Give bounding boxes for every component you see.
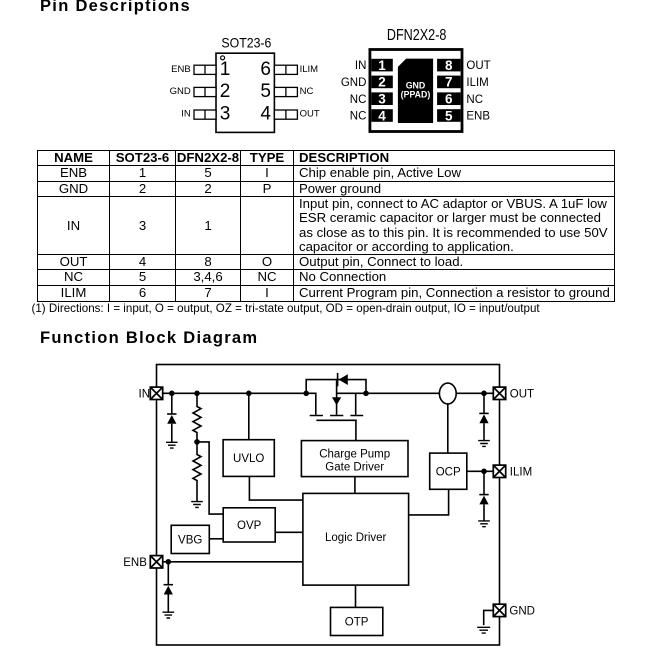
junction node at OUT xyxy=(481,391,487,397)
DFN pin number 2 xyxy=(378,75,386,90)
svg-text:5: 5 xyxy=(445,108,453,123)
pin number 2 xyxy=(220,81,231,102)
junction node at MOSFET drain xyxy=(363,391,369,397)
svg-text:3: 3 xyxy=(220,104,231,125)
DFN pad pin 4 xyxy=(371,109,393,122)
svg-text:8: 8 xyxy=(445,58,453,73)
text UVLO xyxy=(233,453,264,465)
pin label GND xyxy=(170,86,191,97)
label ILIM xyxy=(510,466,532,478)
pin OUT xyxy=(493,387,505,399)
wire: OVP to logic driver xyxy=(275,531,303,533)
svg-text:Charge Pump: Charge Pump xyxy=(319,449,390,461)
wire: IN rail to MOSFET source xyxy=(163,393,316,415)
wire: current sensor to OCP xyxy=(447,404,449,453)
svg-text:OUT: OUT xyxy=(510,388,534,400)
svg-text:OUT: OUT xyxy=(466,60,490,72)
ESD diode D4 (ENB) xyxy=(164,585,173,613)
pin description table xyxy=(37,150,615,302)
svg-text:IN: IN xyxy=(139,388,151,400)
pin ILIM xyxy=(493,465,505,477)
svg-text:NC: NC xyxy=(300,86,314,97)
ground (GND pin) xyxy=(477,627,490,633)
pin 6 lead xyxy=(274,65,297,74)
transistor Q1 bulk line with arrow xyxy=(332,380,341,415)
text OVP xyxy=(237,520,262,532)
current sensor CS1 xyxy=(439,383,456,404)
DFN pin label IN xyxy=(355,60,367,72)
svg-text:ENB: ENB xyxy=(466,111,490,123)
svg-text:6: 6 xyxy=(445,92,453,107)
DFN thermal pad GND (PPAD) xyxy=(398,59,433,123)
ground (ENB ESD) xyxy=(163,612,175,618)
wire: charge pump to logic driver xyxy=(354,477,356,494)
junction node on IN rail at UVLO xyxy=(246,391,252,397)
block charge pump gate driver xyxy=(301,441,408,477)
svg-text:ILIM: ILIM xyxy=(466,77,488,89)
heading: Function Block Diagram xyxy=(40,329,258,348)
DFN pin label ILIM xyxy=(466,77,488,89)
wire: divider tap to OVP xyxy=(197,442,223,514)
DFN pad pin 8 xyxy=(437,59,461,72)
pin GND xyxy=(493,604,505,616)
svg-text:UVLO: UVLO xyxy=(233,453,264,465)
block OTP xyxy=(331,607,383,635)
ESD diode D1 (IN) xyxy=(167,414,176,442)
pin 1 indicator dot xyxy=(221,56,225,60)
svg-text:IN: IN xyxy=(355,60,367,72)
svg-text:ILIM: ILIM xyxy=(510,466,532,478)
svg-text:1: 1 xyxy=(378,58,386,73)
pin label NC xyxy=(300,86,314,97)
pin number 6 xyxy=(260,59,271,80)
pin 3 lead xyxy=(194,110,216,119)
resistor R2 lower xyxy=(193,442,201,502)
junction node at ILIM xyxy=(481,469,487,475)
svg-text:2: 2 xyxy=(378,75,386,90)
pin number 5 xyxy=(260,81,271,102)
junction node at divider tap xyxy=(194,439,200,445)
svg-text:SOT23-6: SOT23-6 xyxy=(221,35,271,51)
svg-text:2: 2 xyxy=(220,81,231,102)
svg-text:ENB: ENB xyxy=(171,64,191,75)
DFN pad pin 1 xyxy=(371,59,393,72)
wire: ILIM ESD diode drop xyxy=(483,471,485,494)
svg-text:OUT: OUT xyxy=(300,109,320,120)
DFN pin number 8 xyxy=(445,58,453,73)
pin label ENB xyxy=(171,64,191,75)
wire: logic driver to OTP xyxy=(355,585,357,607)
svg-text:IN: IN xyxy=(181,109,191,120)
pin label IN xyxy=(181,109,191,120)
DFN pin label NC (pin6) xyxy=(466,94,483,106)
wire: GND pin to ground xyxy=(484,610,494,625)
DFN pin number 3 xyxy=(378,92,386,107)
wire: MOSFET drain rail to OUT xyxy=(337,393,495,415)
wire: UVLO to logic driver xyxy=(249,476,303,500)
svg-text:GND: GND xyxy=(341,77,367,89)
chip boundary xyxy=(157,365,500,646)
svg-text:NC: NC xyxy=(350,94,367,106)
DFN pin number 6 xyxy=(445,92,453,107)
svg-text:4: 4 xyxy=(378,108,386,123)
label GND xyxy=(509,606,535,618)
text Logic Driver xyxy=(325,532,387,544)
table footnote xyxy=(32,302,540,315)
svg-text:1: 1 xyxy=(220,59,231,80)
ESD diode D2 (OUT) xyxy=(479,413,488,440)
DFN pin label ENB xyxy=(466,111,490,123)
block logic driver xyxy=(303,493,409,585)
pin ENB xyxy=(150,556,162,568)
junction node at ENB xyxy=(166,559,172,565)
DFN2X2-8 title xyxy=(387,27,447,44)
svg-text:NC: NC xyxy=(350,111,367,123)
pin 1 lead xyxy=(194,65,216,74)
svg-text:(PPAD): (PPAD) xyxy=(401,90,431,100)
ground (OUT ESD) xyxy=(478,441,490,447)
svg-text:ENB: ENB xyxy=(123,557,147,569)
text OCP xyxy=(436,466,461,478)
ground (IN ESD) xyxy=(166,442,178,448)
wire: logic driver to OCP xyxy=(409,489,449,515)
label IN xyxy=(139,388,151,400)
svg-text:Gate Driver: Gate Driver xyxy=(325,462,384,474)
ground (resistor divider) xyxy=(191,502,203,508)
pin label ILIM xyxy=(300,64,319,75)
junction node on IN rail at divider xyxy=(194,391,200,397)
DFN pad pin 2 xyxy=(371,76,393,89)
pin number 3 xyxy=(220,104,231,125)
label ENB xyxy=(123,557,147,569)
DFN body outline xyxy=(369,48,464,133)
wire: rail to UVLO xyxy=(248,393,250,439)
resistor R1 upper xyxy=(193,393,201,442)
pin 2 lead xyxy=(194,87,216,96)
block OVP xyxy=(223,508,275,542)
body diode D5 xyxy=(338,373,348,386)
ground (ILIM ESD) xyxy=(478,521,490,527)
block UVLO xyxy=(223,440,274,477)
text Charge Pump Gate Driver xyxy=(319,449,390,474)
svg-text:Logic Driver: Logic Driver xyxy=(325,532,387,544)
text OTP xyxy=(345,617,369,629)
text VBG xyxy=(178,535,202,547)
SOT23-6 title xyxy=(221,35,271,51)
svg-text:ILIM: ILIM xyxy=(300,64,319,75)
heading: Pin Descriptions xyxy=(40,0,191,16)
DFN pin number 5 xyxy=(445,108,453,123)
wire: ENB ESD diode drop xyxy=(167,562,169,585)
DFN pin label OUT xyxy=(466,60,490,72)
pin 5 lead xyxy=(274,87,297,96)
DFN pad pin 5 xyxy=(437,109,461,122)
pin IN xyxy=(150,387,162,399)
DFN pin number 7 xyxy=(445,75,453,90)
block OCP xyxy=(430,453,467,489)
DFN pad pin 7 xyxy=(437,76,461,89)
svg-text:7: 7 xyxy=(445,75,453,90)
wire: IN ESD diode drop xyxy=(171,393,173,414)
svg-text:GND: GND xyxy=(170,86,191,97)
wire: gate to charge pump xyxy=(355,420,357,440)
pin number 4 xyxy=(260,104,271,125)
svg-text:3: 3 xyxy=(378,92,386,107)
svg-text:6: 6 xyxy=(260,59,271,80)
svg-text:DFN2X2-8: DFN2X2-8 xyxy=(387,27,447,44)
svg-text:GND: GND xyxy=(509,606,535,618)
SOT23-6 body U1 xyxy=(216,53,274,132)
DFN pin number 4 xyxy=(378,108,386,123)
svg-text:VBG: VBG xyxy=(178,535,202,547)
svg-text:NC: NC xyxy=(466,94,483,106)
transistor Q1 source/bulk/drain bars xyxy=(310,415,364,417)
DFN pad pin 6 xyxy=(437,92,461,105)
ESD diode D3 (ILIM) xyxy=(479,495,488,521)
junction node at MOSFET source xyxy=(303,391,309,397)
transistor Q1 gate xyxy=(316,419,356,421)
wire: ENB to logic driver xyxy=(163,561,303,563)
wire: VBG to OVP xyxy=(209,538,223,540)
label OUT xyxy=(510,388,534,400)
svg-text:OTP: OTP xyxy=(345,617,369,629)
DFN pin number 1 xyxy=(378,58,386,73)
DFN pin label NC (pin4) xyxy=(350,111,367,123)
DFN pad pin 3 xyxy=(371,92,393,105)
DFN pin label GND xyxy=(341,77,367,89)
wire: OUT ESD diode drop xyxy=(483,393,485,413)
wire: OCP to ILIM xyxy=(467,470,495,472)
pin label OUT xyxy=(300,109,320,120)
svg-text:OVP: OVP xyxy=(237,520,262,532)
DFN pin label NC (pin3) xyxy=(350,94,367,106)
svg-text:OCP: OCP xyxy=(436,466,461,478)
svg-text:5: 5 xyxy=(260,81,271,102)
block VBG xyxy=(171,525,209,553)
svg-text:4: 4 xyxy=(260,104,271,125)
junction node on IN rail at ESD diode xyxy=(169,391,175,397)
transistor Q1 body diode branch xyxy=(306,380,366,394)
pin number 1 xyxy=(220,59,231,80)
pin 4 lead xyxy=(274,110,297,119)
